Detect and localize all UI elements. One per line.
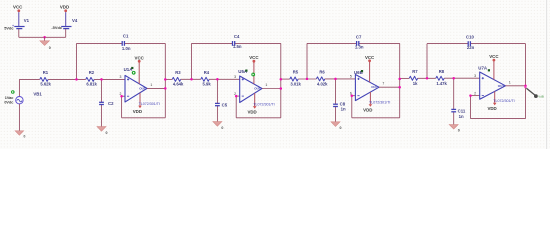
svg-text:1.5n: 1.5n xyxy=(233,44,242,49)
svg-text:1: 1 xyxy=(509,80,511,84)
svg-text:R3: R3 xyxy=(175,70,181,75)
svg-text:VDD: VDD xyxy=(133,109,142,114)
svg-text:-5Vdc: -5Vdc xyxy=(51,25,62,30)
svg-text:R7: R7 xyxy=(412,69,418,74)
svg-text:OUT: OUT xyxy=(254,87,261,91)
svg-text:C1: C1 xyxy=(123,34,129,39)
svg-text:1k: 1k xyxy=(413,81,418,86)
svg-text:C5: C5 xyxy=(222,103,228,108)
svg-text:C7: C7 xyxy=(356,34,362,39)
svg-text:0: 0 xyxy=(49,46,51,50)
svg-text:3: 3 xyxy=(119,75,121,79)
svg-text:1: 1 xyxy=(150,83,152,87)
svg-text:VdB: VdB xyxy=(538,94,544,98)
svg-text:0: 0 xyxy=(23,134,25,138)
svg-text:R1: R1 xyxy=(43,70,49,75)
svg-text:VCC: VCC xyxy=(249,55,259,60)
svg-text:OUT: OUT xyxy=(139,86,146,90)
svg-text:22n: 22n xyxy=(467,45,475,50)
svg-text:R4: R4 xyxy=(204,70,210,75)
svg-text:1n: 1n xyxy=(341,106,346,111)
svg-text:3: 3 xyxy=(234,75,236,79)
svg-text:VDD: VDD xyxy=(60,5,69,10)
svg-text:VCC: VCC xyxy=(365,55,375,60)
svg-text:VB1: VB1 xyxy=(33,92,42,97)
svg-text:4.02k: 4.02k xyxy=(317,82,328,87)
svg-text:R5: R5 xyxy=(293,70,299,75)
svg-text:C4: C4 xyxy=(234,34,240,39)
svg-text:VDD: VDD xyxy=(487,106,496,111)
svg-text:0: 0 xyxy=(458,129,460,133)
svg-text:C10: C10 xyxy=(466,35,474,40)
svg-text:VCC: VCC xyxy=(135,55,145,60)
svg-text:U7A: U7A xyxy=(478,66,488,71)
svg-text:3.01k: 3.01k xyxy=(290,82,301,87)
svg-text:1.3n: 1.3n xyxy=(355,44,364,49)
svg-text:1: 1 xyxy=(265,83,267,87)
svg-text:C2: C2 xyxy=(108,101,114,106)
svg-text:VDD: VDD xyxy=(247,110,256,115)
svg-text:VDD: VDD xyxy=(363,108,372,113)
svg-text:0: 0 xyxy=(340,126,342,130)
svg-text:1.47k: 1.47k xyxy=(436,81,447,86)
svg-text:5: 5 xyxy=(350,75,352,79)
svg-text:1Vac: 1Vac xyxy=(5,96,14,100)
svg-text:5.62k: 5.62k xyxy=(40,81,51,86)
svg-text:1.0n: 1.0n xyxy=(122,46,131,51)
svg-text:V4: V4 xyxy=(72,18,78,23)
svg-text:C11: C11 xyxy=(458,109,466,114)
svg-text:OUT: OUT xyxy=(498,84,505,88)
svg-text:6.81k: 6.81k xyxy=(86,81,97,86)
svg-text:R2: R2 xyxy=(89,70,95,75)
svg-text:0Vdc: 0Vdc xyxy=(4,101,13,105)
svg-text:TL072/301/TI: TL072/301/TI xyxy=(139,102,160,106)
svg-text:5.9k: 5.9k xyxy=(203,81,212,86)
svg-text:TL072/301/TI: TL072/301/TI xyxy=(369,100,390,104)
svg-text:7: 7 xyxy=(382,82,384,86)
svg-text:R6: R6 xyxy=(319,70,325,75)
svg-text:VCC: VCC xyxy=(13,5,23,10)
svg-text:4.64k: 4.64k xyxy=(173,81,184,86)
svg-text:2: 2 xyxy=(474,91,476,95)
svg-text:OUT: OUT xyxy=(371,85,378,89)
svg-text:R8: R8 xyxy=(439,69,445,74)
svg-text:V1: V1 xyxy=(24,18,30,23)
svg-text:0: 0 xyxy=(106,131,108,135)
svg-text:TL072/301/TI: TL072/301/TI xyxy=(493,99,514,103)
svg-text:0: 0 xyxy=(221,126,223,130)
svg-text:1n: 1n xyxy=(459,114,464,119)
svg-text:3: 3 xyxy=(474,74,476,78)
svg-text:5Vdc: 5Vdc xyxy=(4,26,14,31)
svg-text:TL072/301/TI: TL072/301/TI xyxy=(253,102,274,106)
svg-text:VCC: VCC xyxy=(489,54,499,59)
